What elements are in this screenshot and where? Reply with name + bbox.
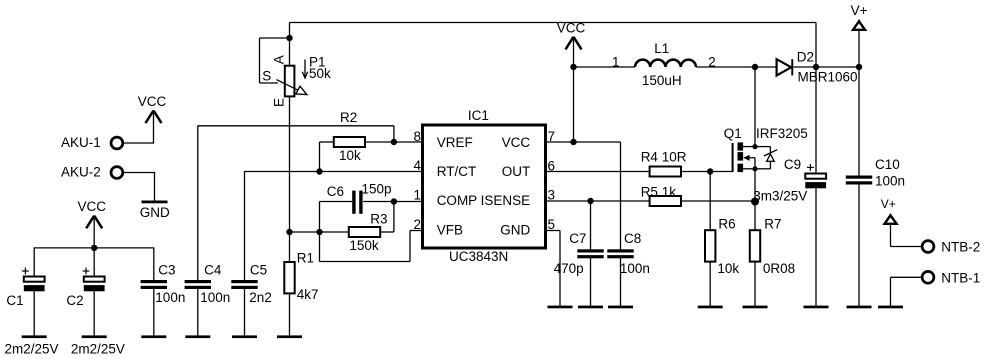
ground (C2): [82, 335, 107, 338]
wire feedback top line: [290, 23, 817, 68]
svg-text:VCC: VCC: [557, 21, 586, 36]
wire Q1 drain: [754, 67, 756, 147]
svg-text:VREF: VREF: [437, 135, 473, 150]
node V+ (NTB output): [881, 197, 897, 224]
svg-text:MBR1060: MBR1060: [798, 69, 858, 84]
node V+ (output, top-right): [851, 3, 868, 30]
wire R6 top: [709, 172, 711, 231]
svg-text:100n: 100n: [200, 290, 230, 305]
pin label VFB (pin 2): [413, 217, 462, 238]
svg-text:VCC: VCC: [138, 94, 167, 109]
wire V+ stem: [858, 30, 860, 67]
svg-text:C6: C6: [327, 184, 344, 199]
wire COMP down to R3: [380, 202, 394, 233]
ground (R6): [698, 306, 723, 309]
resistor R3: [349, 211, 388, 253]
wire pin1 row (COMP): [320, 201, 423, 203]
wire VCC arrow stem: [93, 216, 95, 248]
svg-text:C9: C9: [784, 157, 801, 172]
svg-text:Q1: Q1: [724, 126, 742, 141]
svg-text:L1: L1: [654, 41, 669, 56]
svg-text:E: E: [272, 98, 287, 107]
wire C8 top: [620, 142, 622, 250]
pin 1 label (L1): [612, 54, 620, 69]
svg-text:1: 1: [612, 54, 620, 69]
ground (C1): [22, 335, 47, 338]
svg-text:100n: 100n: [620, 261, 650, 276]
svg-text:100n: 100n: [875, 173, 905, 188]
ground GND (AKU-2): [140, 201, 170, 220]
junction COMP: [391, 198, 397, 204]
wire C8 to ground: [620, 258, 622, 306]
svg-text:2m2/25V: 2m2/25V: [5, 341, 59, 356]
svg-text:2m2/25V: 2m2/25V: [71, 341, 125, 356]
svg-text:100n: 100n: [155, 290, 185, 305]
ground (C9): [804, 306, 829, 309]
capacitor C1: [5, 268, 59, 357]
wire C10 to ground: [858, 184, 860, 305]
wire L1 to D2: [696, 66, 777, 68]
svg-text:2: 2: [413, 217, 421, 232]
wire R5 to source node: [681, 200, 755, 202]
svg-text:ISENSE: ISENSE: [481, 193, 531, 208]
junction RT/CT: [316, 168, 322, 174]
wire P1 wiper loop: [260, 38, 290, 83]
wire C2 top: [93, 248, 95, 277]
ground (C5): [232, 335, 257, 338]
wire C5 top (RT/CT net): [244, 171, 246, 280]
capacitor C7: [554, 231, 604, 276]
svg-text:AKU-1: AKU-1: [61, 135, 101, 150]
wire P1 bottom terminal E: [289, 96, 291, 232]
wire VCC to L1: [574, 66, 636, 68]
ground (R7): [743, 306, 768, 309]
svg-text:4: 4: [413, 158, 421, 173]
svg-text:GND: GND: [500, 222, 530, 237]
svg-text:10k: 10k: [339, 148, 361, 163]
wire C1 top: [33, 248, 35, 277]
svg-text:2n2: 2n2: [249, 290, 272, 305]
wire R1 top: [289, 232, 291, 262]
resistor R1: [284, 250, 318, 302]
capacitor C5: [231, 262, 272, 305]
wire C3 to ground: [153, 289, 155, 336]
svg-text:A: A: [272, 55, 287, 64]
svg-text:AKU-2: AKU-2: [61, 164, 101, 179]
diode D2 MBR1060: [777, 49, 858, 84]
svg-text:150p: 150p: [362, 181, 392, 196]
junction VREF-pin8: [391, 139, 397, 145]
junction Q1 source stub: [752, 166, 757, 171]
svg-text:C7: C7: [569, 231, 586, 246]
svg-text:C1: C1: [6, 293, 23, 308]
svg-text:C10: C10: [875, 157, 900, 172]
wire pin4 row (RT/CT): [245, 171, 423, 173]
capacitor C4: [185, 262, 231, 305]
svg-text:UC3843N: UC3843N: [449, 249, 508, 264]
pin label COMP (pin 1): [413, 187, 477, 208]
wire C5 to ground: [244, 289, 246, 336]
wire C4 to ground: [197, 289, 199, 336]
svg-text:4k7: 4k7: [297, 287, 319, 302]
svg-text:V+: V+: [851, 3, 868, 18]
junction D2-C9-feedback: [813, 64, 819, 70]
capacitor C3: [141, 262, 186, 305]
junction pin7: [570, 139, 576, 145]
pin label VCC (pin 7): [502, 129, 555, 150]
wire C9 to ground: [815, 189, 817, 306]
junction P1-R1-R3: [286, 229, 292, 235]
capacitor C2: [66, 268, 125, 357]
wire C1 to ground: [33, 292, 35, 336]
svg-text:C3: C3: [158, 262, 175, 277]
svg-text:S: S: [262, 69, 271, 84]
junction gate-R6: [707, 168, 713, 174]
terminal AKU-1: [61, 135, 123, 150]
wire P1 top terminal A: [289, 38, 291, 66]
svg-text:C2: C2: [66, 293, 83, 308]
ground (C8): [608, 306, 633, 309]
svg-text:8: 8: [413, 129, 421, 144]
svg-text:5: 5: [548, 217, 556, 232]
inductor L1: [635, 41, 696, 88]
junction ISENSE-C7: [587, 198, 593, 204]
capacitor C8: [607, 231, 650, 276]
wire V+ to NTB-2: [891, 224, 922, 247]
capacitor C10: [846, 157, 905, 189]
svg-text:10k: 10k: [717, 261, 739, 276]
wire NTB-1 to ground: [891, 277, 922, 306]
wire C3 top: [153, 248, 155, 280]
svg-text:150k: 150k: [349, 238, 379, 253]
svg-text:GND: GND: [140, 205, 170, 220]
wire C4 top (VREF net): [197, 126, 199, 281]
svg-text:OUT: OUT: [502, 164, 531, 179]
terminal AKU-2: [61, 164, 123, 179]
resistor R4: [641, 150, 687, 177]
capacitor C9: [753, 157, 826, 204]
pin 2 label (L1): [708, 54, 716, 69]
ground (R1): [277, 335, 302, 338]
ground (IC1 pin5): [548, 306, 573, 309]
junction output V+: [856, 64, 862, 70]
ground (C10): [847, 306, 872, 309]
potentiometer P1: [262, 54, 331, 107]
pin label RT/CT (pin 4): [413, 158, 476, 179]
wire pin5 row (GND): [546, 231, 561, 306]
svg-text:IC1: IC1: [468, 108, 489, 123]
wire C2 to ground: [93, 292, 95, 336]
svg-text:R3: R3: [370, 211, 387, 226]
junction R3-C6-VFB: [316, 229, 322, 235]
node VCC (IC supply): [557, 21, 586, 50]
wire C7 to ground: [590, 258, 592, 306]
svg-text:D2: D2: [797, 49, 814, 64]
svg-text:RT/CT: RT/CT: [437, 164, 477, 179]
svg-text:50k: 50k: [309, 66, 331, 81]
wire R4 to gate: [681, 171, 733, 173]
resistor R2: [334, 110, 365, 163]
wire pin6 row (OUT): [546, 171, 650, 173]
svg-text:C4: C4: [204, 262, 222, 277]
junction P1 top: [286, 35, 292, 41]
wire D2 cathode to V+: [793, 66, 859, 68]
svg-text:470p: 470p: [554, 261, 584, 276]
svg-text:R4 10R: R4 10R: [641, 150, 687, 165]
resistor R7: [750, 217, 795, 276]
junction VCC rail: [91, 245, 97, 251]
svg-text:3: 3: [548, 187, 556, 202]
pin label VREF (pin 8): [413, 129, 472, 150]
svg-text:3m3/25V: 3m3/25V: [753, 188, 807, 203]
svg-text:VCC: VCC: [78, 199, 107, 214]
svg-text:R6: R6: [718, 217, 735, 232]
junction Q1 drain stub: [752, 144, 757, 149]
svg-text:VFB: VFB: [437, 222, 463, 237]
transistor Q1 IRF3205: [724, 126, 808, 172]
pin label OUT (pin 6): [502, 158, 555, 179]
svg-text:C8: C8: [624, 231, 641, 246]
pin label ISENSE (pin 3): [481, 187, 555, 208]
wire C6 left down: [319, 202, 321, 233]
svg-text:IRF3205: IRF3205: [756, 126, 808, 141]
wire Q1 source: [754, 169, 756, 202]
wire C10 top: [858, 67, 860, 176]
wire R6 to ground: [709, 262, 711, 306]
svg-text:R7: R7: [764, 217, 781, 232]
wire VREF net: [198, 126, 394, 142]
svg-text:150uH: 150uH: [642, 73, 682, 88]
ground (C7): [578, 306, 603, 309]
resistor R6: [705, 217, 739, 276]
capacitor C6: [327, 181, 392, 214]
wire R7 top: [754, 202, 756, 231]
svg-text:C5: C5: [250, 262, 267, 277]
svg-text:R2: R2: [340, 110, 357, 125]
svg-text:R1: R1: [297, 250, 314, 265]
wire AKU-1 to VCC: [124, 111, 155, 144]
wire pin7 row: [546, 141, 621, 143]
svg-text:R5 1k: R5 1k: [641, 184, 677, 199]
wire VCC rail: [34, 247, 155, 249]
svg-text:NTB-1: NTB-1: [941, 270, 980, 285]
wire VCC stem to pin7: [573, 37, 575, 142]
wire VFB route: [320, 231, 423, 262]
terminal NTB-1: [922, 270, 980, 285]
resistor R5: [641, 184, 681, 206]
junction VCC-L1: [570, 64, 576, 70]
ground (C4): [185, 335, 210, 338]
junction source-R5-R7: [751, 198, 759, 206]
svg-text:VCC: VCC: [502, 135, 531, 150]
wire AKU-2 to GND: [124, 173, 156, 201]
node VCC (filter rail): [78, 199, 107, 229]
wire R1 to ground: [289, 293, 291, 335]
svg-text:V+: V+: [881, 197, 896, 211]
wire C9 top: [815, 67, 817, 174]
terminal NTB-2: [922, 240, 980, 255]
wire C7 top: [590, 201, 592, 250]
wire pin8 row: [320, 141, 423, 143]
pin label GND (pin 5): [500, 217, 555, 238]
ground (NTB-1): [878, 306, 903, 309]
ground (C3): [141, 335, 166, 338]
junction L1-Q1 drain: [752, 64, 758, 70]
wire pin3 row (ISENSE): [546, 200, 650, 202]
svg-text:COMP: COMP: [437, 193, 478, 208]
wire R2 left to RT/CT: [319, 142, 321, 172]
svg-text:NTB-2: NTB-2: [941, 240, 980, 255]
svg-text:1: 1: [413, 187, 421, 202]
svg-text:0R08: 0R08: [763, 261, 795, 276]
node VCC (battery input, top-left): [138, 94, 167, 123]
wire R7 to ground: [754, 262, 756, 306]
wire R3 left: [290, 231, 349, 233]
op-amp U1 / IC1 UC3843N box: [423, 108, 546, 264]
